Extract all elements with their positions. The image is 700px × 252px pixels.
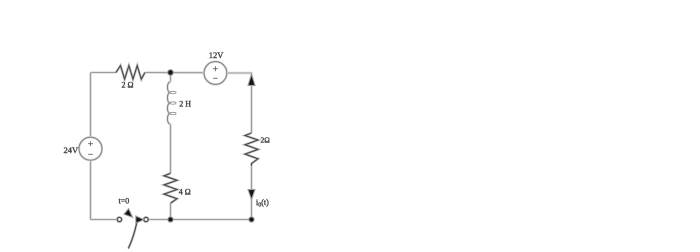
- svg-text:t=0: t=0: [119, 197, 130, 206]
- component halo pass: [116, 66, 258, 249]
- switch closing arrowhead: [136, 216, 144, 223]
- voltage source U1 minus sign: [88, 153, 93, 155]
- voltage source U2 minus sign: [213, 77, 218, 79]
- wire core pass: [91, 73, 252, 220]
- current arrow down i0(t): [248, 190, 255, 200]
- svg-text:24V: 24V: [64, 145, 80, 155]
- wire halo pass: [91, 73, 252, 220]
- node B bottom middle junction dot: [168, 217, 173, 222]
- svg-text:2Ω: 2Ω: [261, 136, 271, 145]
- inductor L1 crossing loop ellipses: [170, 91, 176, 114]
- source circle core pass: [79, 62, 227, 161]
- current arrow up on right rail: [248, 74, 255, 85]
- voltage source U1 plus sign: [88, 143, 93, 145]
- switch blade arrowhead: [124, 209, 133, 218]
- node A top junction dot: [168, 70, 174, 76]
- node C bottom right junction dot: [249, 217, 254, 222]
- svg-text:2 Ω: 2 Ω: [122, 81, 134, 90]
- component core pass: [116, 66, 258, 249]
- svg-text:2 H: 2 H: [179, 100, 191, 109]
- source circle halo pass: [79, 62, 227, 161]
- svg-text:4 Ω: 4 Ω: [179, 188, 191, 197]
- svg-text:i0(t): i0(t): [256, 198, 269, 209]
- voltage source U2 plus sign: [213, 68, 218, 70]
- svg-text:12V: 12V: [209, 50, 225, 60]
